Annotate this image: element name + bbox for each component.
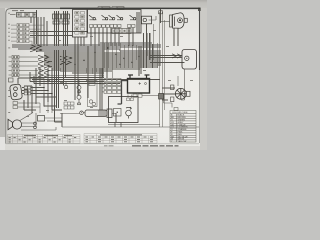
battery terminal left [128,75,133,79]
scan background margin [0,0,207,150]
tail lamp bracket upper [171,85,174,90]
frame right border [199,9,201,70]
top frame tap wire [160,9,162,23]
connector row 4 [11,36,17,38]
neutral switch stack [13,78,52,113]
left row connector 2 [9,61,12,63]
wires out of mid chevrons [50,57,105,75]
battery thick cable [118,81,129,104]
headlamp drop wires [174,28,178,46]
svg-text:COLOUR CODE: COLOUR CODE [172,112,188,114]
frame top-right corner blob [198,8,200,11]
cross link wires [30,10,88,44]
top-left connector row dark cells [18,13,20,15]
connector row 3 [11,32,17,34]
left row connector 3 [9,65,12,67]
main harness horizontal bus lower [44,53,161,73]
flasher contacts [34,122,37,125]
bottom bus wires [21,118,199,130]
top-center stack B wires [64,11,68,46]
center inline connector chevrons [60,56,72,64]
bulb chain upper bulb [77,80,81,95]
tail lamp base [186,91,190,96]
headlamp shell [173,13,185,28]
wire junction dots [43,87,53,95]
colour code table [170,111,196,143]
left connector column rows [9,55,39,76]
mid harness vertical drops [24,68,102,113]
headlamp terminal [184,18,187,22]
bus junction dots [56,47,140,84]
connector row 1 [11,24,17,26]
horn lead wires [20,113,36,127]
left row connector 1 [9,56,12,58]
frame right border lower [198,70,200,143]
coil lead wires [55,113,117,127]
regulator box [109,97,139,123]
ignition unit box [142,16,152,24]
panel lower sub-box [112,29,131,34]
instrument housing [88,81,98,107]
panel top tab 2 [117,7,124,10]
rear small junction box [159,94,164,100]
panel switch 5 [130,15,137,20]
stack A connector [53,14,61,24]
relay symbol [115,107,132,127]
top-left connector row [17,13,37,18]
ignition connector pairs [24,86,30,95]
left inline connector chevrons upper [30,45,42,52]
horn cone [8,119,22,129]
frame top border [10,7,200,9]
rear drop wires [164,76,178,108]
bulb chain lower bulb [77,95,81,105]
switch block inner rows [75,12,85,35]
panel lower sub-box pins [114,30,131,32]
headlamp flange [170,15,173,27]
top frame tap connector [159,11,163,14]
left row connector 5 [9,74,12,76]
top-center stack A wires [55,11,59,46]
tail lamp leads [162,88,175,100]
headlamp lead wire [161,21,170,23]
panel contact circle [185,56,189,60]
colour code table text [171,112,188,143]
tail lamp bracket lower [171,97,174,102]
bottom scan margin [0,145,207,150]
stacked connector dark pins [18,24,26,42]
ignition coil junction [80,111,84,115]
switch block dark contacts [76,12,84,33]
margin reference labels [8,10,193,121]
mid harness horizontal wires [30,72,160,84]
ignition coil body [85,109,112,117]
pilot bulb [64,82,67,89]
battery box [128,79,150,94]
caption text [132,145,179,146]
panel switch 4 [117,15,124,20]
paper area [5,8,200,146]
legend table right [84,134,157,143]
panel top tab 1 [102,7,110,10]
small terminal rows [64,102,74,109]
legend table left [8,135,81,144]
right bus drop wires [144,33,153,68]
connector row 2 [11,28,17,30]
paper left shading [5,8,50,146]
switch block (tall) outline [73,10,88,38]
alternator connector block [102,79,121,94]
switch panel box [88,10,142,34]
left frame small component [9,78,14,82]
legend table left header text [9,135,77,142]
top-left row tick [10,14,16,16]
panel switch 3 [109,15,115,20]
left column dark pins [13,56,18,76]
battery terminal right [145,75,150,79]
panel drop wire [181,69,185,100]
top scan margin [0,0,207,8]
ignition switch body [10,84,23,100]
rear frame panel [182,50,197,70]
svg-text:YELLOW: YELLOW [178,141,187,143]
ignition unit contact circle [143,18,146,21]
ignition unit link wire [149,16,157,20]
stack B connector [62,14,70,24]
switch block drop wires [75,37,84,46]
ignition unit drop wire [146,24,148,68]
legend table right header text [86,134,154,142]
panel switch 1 [89,15,97,20]
battery under connectors [133,94,160,97]
panel inner right wires [137,12,139,33]
descending wires below bus [55,46,142,122]
alternator block pins [106,79,118,93]
left scan margin [0,8,5,150]
top-left harness wires vertical bus [31,17,47,46]
panel tab risers [98,7,117,10]
main harness horizontal bus upper [12,43,161,51]
tail lamp bulb [175,88,186,99]
panel switch 2 [102,15,109,20]
left row connector 4 [9,70,12,72]
relay top connectors [127,95,134,101]
flasher relay box [38,116,45,122]
frame left border [6,9,11,144]
frame top border dark right part [60,7,200,9]
regulator inner block [114,109,122,117]
mid inline connector chevrons [38,55,50,77]
bottom-left white corner [0,137,5,150]
switch panel drop wires [91,28,133,47]
battery polarity marks [139,82,142,85]
stacked connectors left (column of 5) [11,24,44,47]
footer small text [104,144,114,147]
bus crossing verticals [60,12,165,127]
panel connector pairs [90,25,136,28]
ignition switch wires [18,78,52,94]
right harness triple wires [150,56,185,63]
connector row 5 [11,40,17,42]
right inline connector chevrons [172,54,182,58]
frame bottom border [6,143,199,145]
right scan margin [200,8,207,150]
